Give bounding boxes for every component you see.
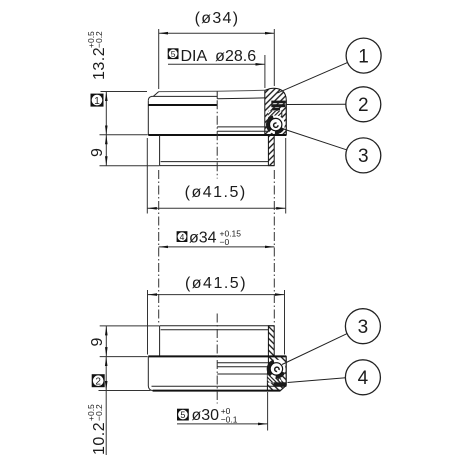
dim (ø41.5) top line bbox=[147, 207, 285, 209]
svg-text:1: 1 bbox=[358, 46, 369, 67]
dim ø34 line bbox=[159, 246, 275, 248]
top cover left edge bbox=[147, 101, 149, 135]
boxed 1 bbox=[91, 94, 104, 107]
svg-text:−0.1: −0.1 bbox=[221, 415, 238, 425]
balloon 4 bbox=[345, 360, 380, 395]
svg-text:4: 4 bbox=[358, 368, 369, 389]
ext line mid (9 / 10.2) bbox=[100, 356, 148, 358]
balloon 1 bbox=[346, 38, 381, 73]
dim 10.2 text bbox=[86, 404, 108, 455]
top cover (part 1) inner top edge, section half bbox=[217, 97, 265, 100]
bearing seal retainer dark bar (part 4 callout) bbox=[274, 382, 287, 387]
svg-text:−0.2: −0.2 bbox=[94, 31, 104, 48]
bearing (part 3) ball bbox=[270, 363, 282, 375]
svg-text:ø34: ø34 bbox=[189, 230, 217, 247]
svg-text:9: 9 bbox=[89, 338, 106, 347]
seam line between cover (1) and cup (4), left half bbox=[148, 104, 217, 106]
internal background line lower (right half) bbox=[217, 373, 269, 375]
svg-text:13.2: 13.2 bbox=[91, 47, 108, 80]
sleeve inner chamfer line bbox=[161, 161, 269, 163]
balloon 2 leader bbox=[287, 103, 346, 105]
ext line left of (ø34) bbox=[158, 29, 160, 89]
dim DIA ø28.6 leader bbox=[168, 63, 265, 65]
dim (ø34) line bbox=[159, 32, 275, 34]
balloon 1 leader bbox=[277, 63, 347, 94]
dim 9 line (top) bbox=[105, 135, 107, 166]
top cover (part 1) cone edge, left half bbox=[151, 95, 217, 97]
bearing (part 3) inner race dense hatch, bottom view bbox=[268, 375, 282, 383]
svg-text:(ø34): (ø34) bbox=[195, 10, 240, 27]
internal background line upper (right half) bbox=[217, 362, 269, 364]
boxed 5 (top) bbox=[168, 48, 179, 59]
svg-text:DIA ø28.6: DIA ø28.6 bbox=[181, 48, 257, 65]
bearing (part 3) race edge vertical bbox=[281, 111, 283, 119]
bearing (part 3) race crescents bbox=[269, 361, 285, 377]
svg-text:−0: −0 bbox=[220, 237, 230, 247]
ext line left (ø41.5) top bbox=[146, 138, 148, 214]
svg-text:(ø41.5): (ø41.5) bbox=[185, 184, 247, 201]
balloon 4 leader bbox=[288, 378, 346, 383]
bearing (part 3) clearance ring bbox=[268, 117, 283, 132]
bearing (part 3) ball inner ring mark bbox=[275, 367, 279, 371]
top cover (part 1) cone chamfer bbox=[153, 92, 158, 97]
flange right edge bbox=[285, 356, 287, 385]
dash-dot ext line left (ø34 datum) bbox=[158, 170, 160, 325]
balloon 3 leader (bottom) bbox=[282, 333, 347, 364]
svg-text:9: 9 bbox=[89, 148, 106, 157]
sleeve left edge bbox=[159, 135, 161, 166]
flange recessed face line bbox=[152, 385, 274, 387]
svg-text:4: 4 bbox=[180, 232, 185, 242]
dim 13.2 line bbox=[105, 92, 107, 135]
dim 10.2 tail bbox=[105, 391, 107, 456]
top cover section jog at centerline bbox=[216, 91, 218, 98]
bearing (part 3) ball bbox=[270, 118, 282, 130]
balloon 2 bbox=[346, 87, 381, 122]
dim ø34 +0.15/-0 text bbox=[189, 229, 241, 248]
ext line right of (ø34) bbox=[273, 29, 275, 86]
ext line right (ø41.5) top bbox=[285, 138, 287, 214]
balloon 3 (top) bbox=[346, 138, 381, 173]
balloon 3 leader (top) bbox=[282, 129, 347, 150]
svg-text:−0.2: −0.2 bbox=[94, 404, 104, 421]
dim (ø41.5) bottom line bbox=[148, 294, 285, 296]
bearing (part 3) race crescents bbox=[268, 117, 284, 133]
svg-text:ø30: ø30 bbox=[192, 407, 220, 424]
compression ring (part 2) dark section bars bbox=[271, 101, 285, 111]
internal background line lower (right half) bbox=[217, 130, 269, 132]
centerline, bottom view bbox=[216, 314, 218, 404]
svg-text:(ø41.5): (ø41.5) bbox=[185, 275, 247, 292]
svg-text:5: 5 bbox=[180, 410, 185, 420]
ext line top of 13.2 bbox=[101, 91, 148, 93]
top cover left rounded corner bbox=[148, 97, 151, 101]
sleeve inner chamfer line bbox=[161, 329, 269, 331]
ext line left (ø41.5) bottom bbox=[147, 290, 149, 355]
flange bottom-left chamfer bbox=[148, 386, 152, 391]
ext line top of 9 (bottom view) bbox=[100, 325, 160, 327]
ext line for ø30 bbox=[267, 392, 269, 431]
internal background line upper (right half) bbox=[217, 126, 269, 128]
boxed 5 (bottom) bbox=[177, 409, 189, 421]
flange bottom heavy line bbox=[148, 134, 286, 136]
boxed 4 bbox=[177, 231, 188, 242]
ext line bottom of 10.2 bbox=[99, 390, 151, 392]
svg-text:3: 3 bbox=[358, 146, 369, 167]
bearing (part 3) inner race dense hatch bbox=[268, 111, 282, 119]
dim 9 line (bottom) bbox=[105, 326, 107, 357]
flange bottom heavy line bbox=[153, 390, 281, 392]
dim ø30 leader bbox=[177, 423, 268, 425]
svg-text:3: 3 bbox=[358, 317, 369, 338]
ext line bottom of 9 bbox=[100, 165, 160, 167]
svg-text:2: 2 bbox=[358, 95, 369, 116]
cup (part 4) and cover (part 1) section block, hatched bbox=[265, 88, 287, 165]
dim 10.2 line bbox=[105, 357, 107, 391]
sleeve left edge bbox=[159, 326, 161, 357]
bearing (part 3) clearance ring bbox=[269, 361, 284, 376]
bearing (part 3) race edge vertical, bottom view bbox=[277, 375, 279, 382]
sleeve bottom line bbox=[160, 165, 275, 167]
dash-dot ext line right (ø34 datum) bbox=[273, 170, 275, 325]
flange right edge bbox=[285, 100, 287, 135]
flange left edge bbox=[147, 356, 149, 386]
balloon 3 (bottom) bbox=[345, 309, 380, 344]
ext line right (ø41.5) bottom bbox=[284, 290, 286, 355]
dim ø30 +0/-0.1 text bbox=[192, 406, 238, 425]
centerline, top view bbox=[216, 100, 218, 178]
flange bottom-right step bbox=[280, 385, 286, 390]
dim 13.2 text bbox=[86, 31, 108, 80]
boxed 2 bbox=[92, 374, 105, 387]
svg-text:5: 5 bbox=[171, 49, 176, 59]
ext line for ø28.6 bbox=[264, 55, 266, 88]
svg-text:10.2: 10.2 bbox=[91, 422, 108, 455]
lower cup (part 4) section block, hatched bbox=[267, 326, 286, 391]
sleeve top line bbox=[160, 325, 275, 327]
internal background line mid (right half) bbox=[217, 366, 269, 368]
flange top heavy line bbox=[148, 355, 286, 357]
bearing (part 3) ball inner ring mark bbox=[274, 123, 278, 127]
svg-text:1: 1 bbox=[94, 96, 100, 107]
svg-text:2: 2 bbox=[95, 377, 101, 388]
ext line mid (bottom of 13.2 / top of 9) bbox=[100, 134, 148, 136]
top cover (part 1) top flat edge bbox=[159, 90, 265, 91]
